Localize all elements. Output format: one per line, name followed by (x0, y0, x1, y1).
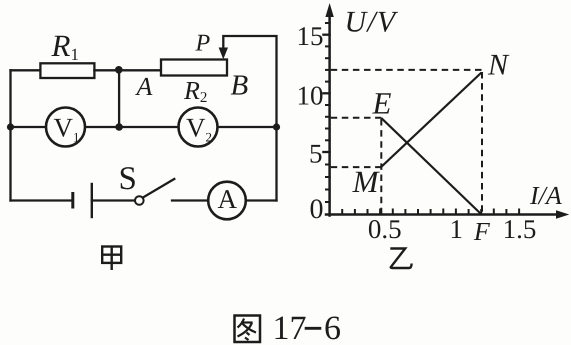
svg-text:N: N (487, 49, 510, 82)
svg-text:A: A (135, 72, 153, 101)
svg-text:10: 10 (297, 81, 324, 111)
svg-text:0.5: 0.5 (368, 214, 402, 244)
svg-text:6: 6 (324, 310, 341, 345)
svg-text:S: S (119, 161, 137, 197)
svg-text:15: 15 (297, 21, 324, 51)
svg-text:B: B (231, 70, 249, 102)
svg-text:P: P (195, 31, 211, 57)
svg-text:0: 0 (310, 194, 324, 225)
svg-text:5: 5 (309, 139, 323, 169)
svg-text:E: E (372, 86, 392, 121)
svg-text:F: F (473, 217, 491, 246)
svg-text:M: M (352, 164, 381, 199)
svg-text:1.5: 1.5 (503, 214, 537, 244)
svg-text:A: A (218, 184, 238, 214)
svg-text:U/V: U/V (345, 5, 399, 38)
svg-text:1: 1 (450, 214, 464, 244)
svg-text:I/A: I/A (529, 181, 562, 210)
svg-text:17: 17 (273, 310, 307, 345)
